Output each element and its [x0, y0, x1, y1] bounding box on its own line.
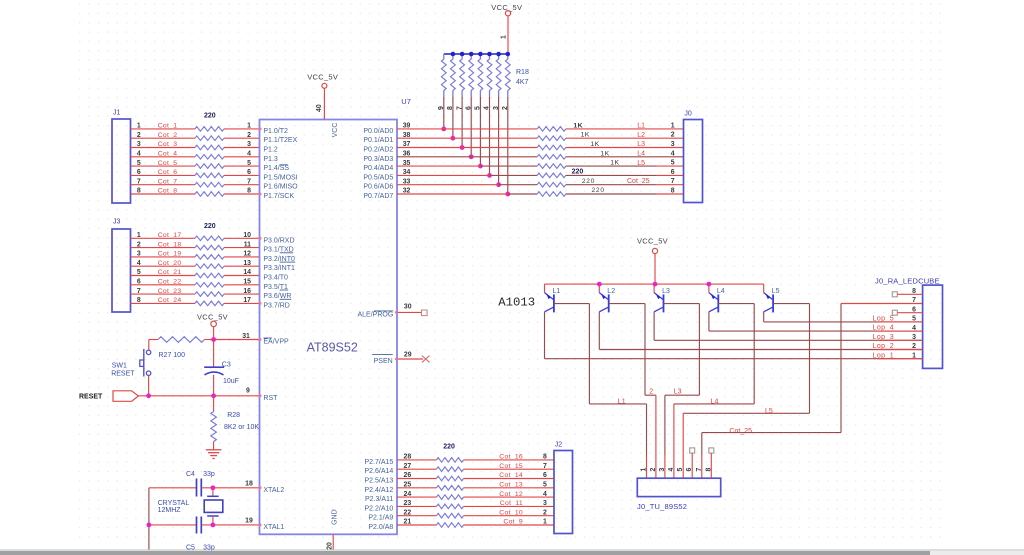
svg-text:3: 3 [659, 468, 666, 472]
svg-text:L5: L5 [772, 288, 780, 295]
svg-text:VCC_5V: VCC_5V [637, 237, 668, 246]
svg-text:4: 4 [543, 491, 547, 498]
svg-text:Cot_18: Cot_18 [158, 241, 182, 248]
svg-text:7: 7 [696, 468, 703, 472]
svg-text:Cot_4: Cot_4 [158, 151, 178, 158]
svg-text:2: 2 [502, 106, 509, 110]
svg-text:29: 29 [404, 352, 412, 359]
svg-text:7: 7 [137, 288, 141, 295]
svg-text:220: 220 [592, 187, 605, 194]
svg-text:7: 7 [671, 178, 675, 185]
svg-text:P0.0/AD0: P0.0/AD0 [363, 128, 393, 135]
svg-text:7: 7 [137, 178, 141, 185]
svg-text:L3: L3 [674, 388, 682, 395]
svg-text:P3.0/RXD: P3.0/RXD [263, 237, 294, 244]
svg-text:P0.5/AD5: P0.5/AD5 [363, 174, 393, 181]
svg-text:18: 18 [245, 481, 253, 488]
svg-text:5: 5 [671, 160, 675, 167]
svg-text:2: 2 [137, 132, 141, 139]
svg-text:40: 40 [316, 104, 323, 112]
svg-text:Cot_2: Cot_2 [158, 132, 178, 139]
svg-text:19: 19 [245, 517, 253, 524]
svg-text:R18: R18 [516, 69, 529, 76]
svg-text:8: 8 [671, 188, 675, 195]
svg-text:3: 3 [247, 141, 251, 148]
svg-text:L3: L3 [637, 141, 645, 148]
svg-text:3: 3 [493, 106, 500, 110]
svg-text:17: 17 [243, 297, 251, 304]
svg-text:C4: C4 [186, 471, 195, 478]
svg-text:Cot_16: Cot_16 [499, 454, 523, 461]
svg-text:1: 1 [671, 122, 675, 129]
svg-text:P0.1/AD1: P0.1/AD1 [363, 137, 393, 144]
svg-text:1: 1 [137, 123, 141, 130]
svg-text:P2.6/A14: P2.6/A14 [364, 468, 393, 475]
svg-text:6: 6 [137, 279, 141, 286]
svg-text:P2.4/A12: P2.4/A12 [364, 487, 393, 494]
svg-text:P3.7/RD: P3.7/RD [263, 302, 289, 309]
svg-text:6: 6 [671, 169, 675, 176]
svg-text:Cot_10: Cot_10 [499, 509, 523, 516]
svg-text:L1: L1 [618, 398, 626, 405]
svg-text:Cot_9: Cot_9 [503, 519, 523, 526]
svg-text:8: 8 [137, 188, 141, 195]
svg-text:Cot_19: Cot_19 [158, 251, 182, 258]
svg-text:2: 2 [671, 132, 675, 139]
svg-text:4: 4 [247, 151, 251, 158]
svg-text:6: 6 [137, 169, 141, 176]
svg-text:6: 6 [465, 106, 472, 110]
svg-text:J0_TU_89S52: J0_TU_89S52 [637, 502, 687, 511]
svg-text:3: 3 [137, 141, 141, 148]
svg-text:Cot_7: Cot_7 [158, 178, 178, 185]
svg-text:15: 15 [243, 279, 251, 286]
svg-text:2: 2 [543, 509, 547, 516]
svg-text:220: 220 [204, 113, 216, 120]
svg-text:XTAL1: XTAL1 [263, 524, 284, 531]
svg-text:2: 2 [650, 468, 657, 472]
svg-text:Cot_1: Cot_1 [158, 123, 178, 130]
svg-text:J0: J0 [684, 111, 692, 118]
svg-text:5: 5 [475, 106, 482, 110]
svg-text:3: 3 [137, 251, 141, 258]
svg-text:L4: L4 [637, 151, 645, 158]
svg-text:P0.2/AD2: P0.2/AD2 [363, 147, 393, 154]
svg-text:5: 5 [137, 269, 141, 276]
svg-text:RST: RST [263, 395, 278, 402]
svg-text:220: 220 [443, 443, 455, 450]
svg-text:Cot_20: Cot_20 [158, 260, 182, 267]
svg-text:Cot_12: Cot_12 [499, 491, 523, 498]
svg-text:7: 7 [456, 106, 463, 110]
svg-text:Cot_25: Cot_25 [729, 428, 752, 435]
svg-text:30: 30 [404, 304, 412, 311]
svg-text:8K2 or 10K: 8K2 or 10K [224, 424, 259, 431]
svg-text:16: 16 [243, 288, 251, 295]
svg-text:7: 7 [247, 178, 251, 185]
svg-text:L5: L5 [637, 160, 645, 167]
svg-text:P0.7/AD7: P0.7/AD7 [363, 193, 393, 200]
svg-text:4: 4 [671, 150, 675, 157]
svg-text:L3: L3 [662, 288, 670, 295]
svg-text:8: 8 [447, 106, 454, 110]
svg-text:5: 5 [137, 160, 141, 167]
svg-text:Cot_24: Cot_24 [158, 297, 182, 304]
svg-text:ALE/PROG: ALE/PROG [358, 311, 394, 318]
svg-text:P1.6/MISO: P1.6/MISO [263, 184, 298, 191]
svg-text:220: 220 [572, 169, 584, 176]
svg-text:J0_RA_LEDCUBE: J0_RA_LEDCUBE [875, 276, 940, 285]
svg-text:1K: 1K [591, 141, 600, 148]
svg-text:14: 14 [243, 269, 251, 276]
svg-text:12: 12 [243, 251, 251, 258]
svg-text:1K: 1K [600, 150, 609, 157]
svg-text:P0.4/AD4: P0.4/AD4 [363, 165, 393, 172]
svg-text:11: 11 [244, 241, 251, 248]
svg-text:R27 100: R27 100 [159, 352, 186, 359]
svg-text:P3.4/T0: P3.4/T0 [263, 275, 288, 282]
svg-text:L4: L4 [711, 398, 719, 405]
svg-text:L2: L2 [607, 288, 615, 295]
svg-text:13: 13 [243, 260, 251, 267]
svg-text:5: 5 [247, 160, 251, 167]
svg-text:P2.0/A8: P2.0/A8 [368, 524, 393, 531]
svg-text:L4: L4 [717, 288, 725, 295]
svg-text:3: 3 [543, 500, 547, 507]
svg-text:C3: C3 [222, 361, 231, 368]
svg-text:XTAL2: XTAL2 [263, 487, 284, 494]
svg-text:4: 4 [668, 468, 675, 472]
svg-text:Cot_23: Cot_23 [158, 288, 182, 295]
svg-text:Cot_15: Cot_15 [499, 463, 523, 470]
svg-text:Cot_8: Cot_8 [158, 188, 178, 195]
svg-text:Cot_11: Cot_11 [500, 500, 523, 507]
svg-text:R28: R28 [227, 412, 240, 419]
svg-text:Cot_3: Cot_3 [158, 141, 178, 148]
svg-text:7: 7 [543, 463, 547, 470]
svg-text:L1: L1 [637, 123, 645, 130]
svg-text:Cot_6: Cot_6 [158, 169, 178, 176]
svg-text:7: 7 [912, 297, 916, 304]
svg-text:20: 20 [327, 542, 334, 550]
svg-text:P1.7/SCK: P1.7/SCK [263, 193, 294, 200]
svg-text:P1.4/SS: P1.4/SS [263, 165, 289, 172]
svg-text:P2.7/A15: P2.7/A15 [364, 459, 393, 466]
svg-text:4K7: 4K7 [516, 79, 529, 86]
svg-text:U7: U7 [401, 97, 411, 106]
svg-text:1K: 1K [610, 160, 619, 167]
svg-text:10uF: 10uF [223, 378, 239, 385]
svg-text:P0.6/AD6: P0.6/AD6 [363, 184, 393, 191]
svg-text:Cot_17: Cot_17 [158, 232, 182, 239]
svg-text:P1.2: P1.2 [263, 147, 278, 154]
svg-text:6: 6 [543, 472, 547, 479]
svg-text:Cot_14: Cot_14 [499, 472, 523, 479]
svg-text:J2: J2 [555, 442, 563, 449]
svg-text:Cot_25: Cot_25 [627, 178, 650, 185]
svg-text:VCC_5V: VCC_5V [197, 312, 228, 321]
svg-text:5: 5 [677, 468, 684, 472]
svg-text:10: 10 [243, 232, 251, 239]
svg-text:4: 4 [137, 260, 141, 267]
svg-text:P1.3: P1.3 [263, 156, 278, 163]
svg-text:EA/VPP: EA/VPP [263, 339, 289, 346]
svg-text:3: 3 [671, 141, 675, 148]
svg-text:P2.5/A13: P2.5/A13 [364, 478, 393, 485]
svg-text:PSEN: PSEN [374, 358, 393, 365]
svg-text:RESET: RESET [111, 371, 135, 378]
svg-text:VCC_5V: VCC_5V [307, 73, 338, 82]
svg-text:2: 2 [649, 388, 653, 395]
svg-text:33p: 33p [203, 471, 215, 478]
svg-text:4: 4 [484, 106, 491, 110]
svg-text:12MHZ: 12MHZ [158, 507, 182, 514]
svg-text:Cot_5: Cot_5 [158, 160, 178, 167]
svg-text:P0.3/AD3: P0.3/AD3 [363, 156, 393, 163]
svg-text:P1.0/T2: P1.0/T2 [263, 128, 288, 135]
svg-text:GND: GND [332, 509, 339, 525]
svg-text:AT89S52: AT89S52 [307, 340, 358, 354]
svg-text:5: 5 [543, 482, 547, 489]
svg-text:P2.1/A9: P2.1/A9 [368, 515, 393, 522]
svg-text:Lop_3: Lop_3 [873, 334, 894, 341]
svg-text:2: 2 [137, 241, 141, 248]
svg-text:VCC: VCC [332, 123, 339, 138]
svg-text:Lop_5: Lop_5 [873, 316, 894, 323]
svg-text:8: 8 [543, 454, 547, 461]
svg-text:Cot_13: Cot_13 [499, 482, 523, 489]
svg-text:L2: L2 [637, 132, 645, 139]
svg-text:9: 9 [246, 387, 250, 394]
svg-text:4: 4 [137, 151, 141, 158]
svg-text:P1.1/T2EX: P1.1/T2EX [263, 137, 297, 144]
svg-text:1K: 1K [581, 132, 590, 139]
svg-text:1: 1 [641, 468, 648, 472]
svg-text:Lop_1: Lop_1 [873, 352, 894, 359]
svg-text:P1.5/MOSI: P1.5/MOSI [263, 174, 297, 181]
svg-text:1: 1 [137, 232, 141, 239]
svg-text:Lop_4: Lop_4 [873, 325, 894, 332]
svg-text:9: 9 [438, 106, 445, 110]
svg-text:Cot_21: Cot_21 [158, 269, 182, 276]
svg-text:L5: L5 [765, 408, 773, 415]
svg-text:P2.2/A10: P2.2/A10 [364, 505, 393, 512]
svg-text:1: 1 [247, 123, 251, 130]
svg-text:J3: J3 [113, 219, 121, 226]
svg-text:220: 220 [582, 178, 595, 185]
svg-text:Lop_2: Lop_2 [873, 343, 894, 350]
svg-text:1K: 1K [573, 122, 583, 129]
svg-text:P2.3/A11: P2.3/A11 [365, 496, 393, 503]
svg-text:J1: J1 [113, 110, 121, 117]
svg-text:RESET: RESET [79, 393, 103, 400]
svg-text:Cot_22: Cot_22 [158, 279, 182, 286]
svg-text:SW1: SW1 [112, 362, 127, 369]
svg-text:L1: L1 [553, 288, 561, 295]
svg-text:P3.3/INT1: P3.3/INT1 [263, 265, 295, 272]
svg-text:1: 1 [543, 519, 547, 526]
svg-text:A1013: A1013 [498, 296, 535, 310]
svg-text:8: 8 [247, 188, 251, 195]
svg-text:6: 6 [247, 169, 251, 176]
svg-text:220: 220 [204, 223, 216, 230]
svg-text:1: 1 [500, 35, 507, 39]
svg-text:8: 8 [137, 297, 141, 304]
svg-text:2: 2 [247, 132, 251, 139]
